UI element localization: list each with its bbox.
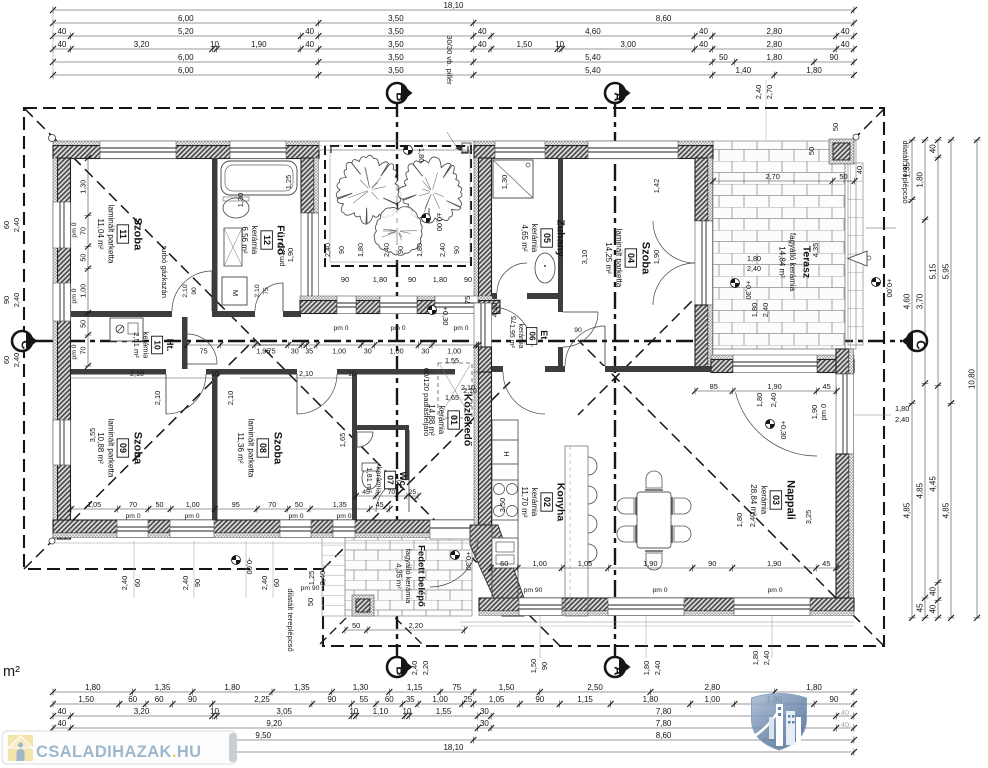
svg-text:2,10: 2,10 xyxy=(182,284,189,297)
section marker B bottom xyxy=(387,657,413,677)
dim row konyha-nappali south xyxy=(488,559,839,572)
svg-text:Fedett belépő: Fedett belépő xyxy=(415,545,426,607)
dim text 40 gray right xyxy=(841,708,849,729)
svg-text:2,40: 2,40 xyxy=(12,293,21,307)
dim text 1,65 xyxy=(338,433,347,447)
svg-text:1,55: 1,55 xyxy=(436,707,452,716)
svg-text:50: 50 xyxy=(807,147,816,155)
svg-text:5,15: 5,15 xyxy=(929,263,938,279)
svg-text:75: 75 xyxy=(463,296,472,304)
kitchen west wall xyxy=(474,372,492,525)
svg-text:60: 60 xyxy=(155,695,164,704)
svg-text:60: 60 xyxy=(2,221,11,229)
svg-text:2,10: 2,10 xyxy=(299,369,313,378)
exterior wall south kitchen-nappali xyxy=(479,598,854,616)
svg-text:2,40: 2,40 xyxy=(410,661,419,675)
elevation marker +0,00 terasz edge xyxy=(872,278,895,298)
svg-text:10,88 m²: 10,88 m² xyxy=(96,432,105,464)
svg-text:Szoba: Szoba xyxy=(131,218,143,251)
svg-text:45: 45 xyxy=(376,500,384,509)
svg-text:pm 0: pm 0 xyxy=(652,587,667,594)
svg-text:1,50: 1,50 xyxy=(529,659,538,673)
svg-text:1,15: 1,15 xyxy=(407,683,423,692)
dim row wc xyxy=(353,489,421,500)
elevation marker +0,30 entry xyxy=(451,551,474,571)
svg-text:3,50: 3,50 xyxy=(388,40,404,49)
dimension row bottom detail xyxy=(50,695,857,708)
patio roof edge strip xyxy=(319,141,474,150)
svg-text:1,05: 1,05 xyxy=(578,559,592,568)
svg-text:90: 90 xyxy=(396,246,405,254)
window top szoba04 xyxy=(588,141,678,159)
dim text 2,40 xyxy=(653,661,662,675)
svg-text:pm 0: pm 0 xyxy=(333,325,348,332)
window south szoba08 a xyxy=(280,520,311,538)
dim row corridor right xyxy=(252,342,482,356)
dim entry bottom xyxy=(342,621,468,634)
svg-text:40: 40 xyxy=(929,586,938,595)
dim text 50 xyxy=(306,598,315,606)
svg-text:2,10: 2,10 xyxy=(130,369,144,378)
dim text 2,40 xyxy=(410,661,419,675)
tree large right xyxy=(398,157,462,223)
svg-text:1,30: 1,30 xyxy=(236,193,245,207)
svg-text:pm120: pm120 xyxy=(277,244,286,267)
svg-text:90: 90 xyxy=(337,246,346,254)
svg-text:1,35: 1,35 xyxy=(155,683,171,692)
text pm0 row patio xyxy=(333,325,468,332)
svg-text:2,40: 2,40 xyxy=(323,243,332,257)
svg-text:60: 60 xyxy=(272,579,281,587)
door arc zuhany xyxy=(497,263,527,293)
dimension row top five xyxy=(50,53,857,66)
svg-text:11,04 m²: 11,04 m² xyxy=(96,219,105,250)
elevation marker +0,30 kozlekedo xyxy=(428,306,451,326)
svg-text:M: M xyxy=(231,290,240,296)
svg-text:1,50: 1,50 xyxy=(78,695,94,704)
svg-text:30: 30 xyxy=(480,719,489,728)
roof valley kitchen xyxy=(323,382,510,569)
wall corridor-Et lower xyxy=(474,347,492,372)
svg-text:Szoba: Szoba xyxy=(131,432,143,465)
dim text 2,40 xyxy=(769,393,778,407)
wall szoba04 east lower xyxy=(695,305,713,367)
svg-text:1,35: 1,35 xyxy=(333,500,347,509)
svg-text:B: B xyxy=(394,666,408,675)
room Furdo 12 label xyxy=(240,225,287,255)
svg-text:Szoba: Szoba xyxy=(639,242,651,275)
svg-text:1,80: 1,80 xyxy=(373,275,387,284)
section marker A top xyxy=(605,83,631,103)
svg-text:5,20: 5,20 xyxy=(178,27,194,36)
exterior wall west xyxy=(53,158,71,539)
svg-text:laminált parketta: laminált parketta xyxy=(614,229,623,288)
svg-text:2,40: 2,40 xyxy=(895,415,909,424)
svg-text:3,50: 3,50 xyxy=(388,66,404,75)
svg-text:95: 95 xyxy=(232,500,240,509)
svg-text:1,42: 1,42 xyxy=(652,179,661,193)
shower zuhany xyxy=(493,160,533,198)
svg-text:+1,80: +1,80 xyxy=(417,144,426,163)
svg-text:2,25: 2,25 xyxy=(254,695,270,704)
svg-text:1,80: 1,80 xyxy=(755,393,764,407)
svg-text:1,30: 1,30 xyxy=(79,180,88,194)
svg-text:4,65 m²: 4,65 m² xyxy=(520,224,529,251)
svg-text:Et.: Et. xyxy=(539,330,549,342)
window south szoba09 b xyxy=(170,520,214,538)
section marker C right xyxy=(902,331,928,351)
terrace door opening xyxy=(733,355,817,373)
svg-text:H: H xyxy=(502,451,511,456)
svg-text:90: 90 xyxy=(452,246,461,254)
svg-text:1,80: 1,80 xyxy=(642,661,651,675)
svg-text:A: A xyxy=(612,666,626,675)
svg-text:2,40: 2,40 xyxy=(747,264,761,273)
svg-text:70: 70 xyxy=(79,227,88,235)
svg-text:60: 60 xyxy=(133,579,142,587)
svg-text:60/120 padlásfeljáró: 60/120 padlásfeljáró xyxy=(422,368,431,436)
svg-text:2,20: 2,20 xyxy=(421,661,430,675)
svg-text:14,25 m²: 14,25 m² xyxy=(604,242,613,274)
wall corridor south xyxy=(71,369,492,375)
section marker A bottom xyxy=(605,657,631,677)
svg-text:1,40: 1,40 xyxy=(736,66,752,75)
svg-text:C: C xyxy=(19,340,33,349)
dim text 2,40 xyxy=(761,303,770,317)
svg-text:45: 45 xyxy=(822,559,830,568)
svg-text:1,80: 1,80 xyxy=(747,254,761,263)
dim text 1,42 xyxy=(652,179,661,193)
svg-text:1,30: 1,30 xyxy=(500,175,509,189)
entry diagonal wall xyxy=(470,525,524,616)
svg-text:1,80: 1,80 xyxy=(415,243,424,257)
svg-text:75: 75 xyxy=(200,347,208,356)
svg-text:25: 25 xyxy=(463,695,472,704)
svg-text:1,50: 1,50 xyxy=(517,40,533,49)
svg-text:1,00: 1,00 xyxy=(705,695,721,704)
svg-text:pm 90: pm 90 xyxy=(524,587,543,594)
dim text 3,55 xyxy=(88,428,97,442)
svg-text:5,40: 5,40 xyxy=(585,53,601,62)
dim text 1,30 xyxy=(236,193,245,207)
dim text 2,40 xyxy=(260,576,269,590)
svg-text:30: 30 xyxy=(364,347,372,356)
svg-text:4,60: 4,60 xyxy=(903,293,912,309)
nappali east window labels xyxy=(854,404,909,424)
svg-text:5,40: 5,40 xyxy=(585,66,601,75)
svg-text:pm 0: pm 0 xyxy=(125,513,140,520)
svg-text:14,84 m²: 14,84 m² xyxy=(778,246,787,278)
svg-text:1,00: 1,00 xyxy=(432,695,448,704)
door arc szoba08 xyxy=(297,374,337,414)
door leaf arcs szoba04-terasz xyxy=(653,221,695,305)
text pm row south xyxy=(301,585,783,594)
svg-text:m²: m² xyxy=(3,664,20,680)
chair top xyxy=(645,471,663,490)
dim row corridor left xyxy=(184,342,310,356)
partition zuhany-szoba04 xyxy=(558,158,563,312)
window leader lines south-right xyxy=(540,616,772,658)
door gap kitchen xyxy=(503,366,545,372)
dim column west inner xyxy=(71,155,92,369)
text dilatalt tereplepcso bottom xyxy=(286,588,295,651)
wall wc north xyxy=(352,425,409,430)
svg-text:40: 40 xyxy=(57,719,66,728)
dimension row bottom 9,20 7,80 xyxy=(50,719,857,732)
svg-text:pm 0: pm 0 xyxy=(390,325,405,332)
svg-text:2,40: 2,40 xyxy=(12,218,21,232)
svg-text:70: 70 xyxy=(388,489,396,496)
svg-text:kerámia: kerámia xyxy=(375,467,384,495)
window south szoba09 a xyxy=(117,520,148,538)
window east nappali xyxy=(836,374,854,454)
svg-text:5,95: 5,95 xyxy=(942,263,951,279)
svg-text:7,80: 7,80 xyxy=(656,707,672,716)
svg-text:06: 06 xyxy=(527,332,536,341)
patio corner bracket right xyxy=(461,146,468,153)
svg-text:Ht.: Ht. xyxy=(164,339,175,352)
svg-text:laminált parketta: laminált parketta xyxy=(246,419,255,478)
svg-text:4,35 m²: 4,35 m² xyxy=(394,563,403,589)
svg-text:2,80: 2,80 xyxy=(767,27,783,36)
chair right2 xyxy=(672,525,691,543)
room Szoba 11 label xyxy=(96,205,143,264)
svg-text:90: 90 xyxy=(708,559,716,568)
svg-text:2,20: 2,20 xyxy=(409,621,423,630)
nappali east wall xyxy=(836,454,854,599)
svg-text:25: 25 xyxy=(409,489,417,496)
roof outline dashed xyxy=(24,108,884,646)
dim text 3,50 xyxy=(498,498,507,512)
svg-text:90: 90 xyxy=(2,296,11,304)
dim 2,10 doors xyxy=(182,284,477,395)
svg-text:50: 50 xyxy=(719,53,728,62)
svg-text:kerámia: kerámia xyxy=(250,226,259,255)
svg-text:40: 40 xyxy=(841,40,850,49)
window west 90 xyxy=(53,283,71,321)
svg-text:+0,30: +0,30 xyxy=(779,421,788,440)
tree small lower xyxy=(374,207,422,256)
toilet wc xyxy=(362,463,378,489)
svg-text:Wc.: Wc. xyxy=(397,472,408,489)
svg-text:laminált parketta: laminált parketta xyxy=(106,419,115,478)
window south nappali a xyxy=(608,598,684,616)
svg-text:50: 50 xyxy=(306,598,315,606)
svg-text:30/30 vb. pillér: 30/30 vb. pillér xyxy=(445,35,454,85)
svg-text:6,00: 6,00 xyxy=(178,53,194,62)
svg-text:C: C xyxy=(914,340,928,349)
dim 90 et door xyxy=(574,327,582,334)
dimension row top six xyxy=(50,66,857,79)
svg-text:1,15: 1,15 xyxy=(577,695,593,704)
svg-text:1,90: 1,90 xyxy=(810,405,819,419)
door arc kitchen xyxy=(503,372,545,414)
svg-text:6,00: 6,00 xyxy=(178,14,194,23)
dim terasz 2,70 50 xyxy=(710,172,858,185)
chair bottom xyxy=(645,551,663,570)
door arc szoba04 xyxy=(565,326,605,366)
svg-text:2,40: 2,40 xyxy=(748,513,757,527)
patio inner edge xyxy=(330,150,470,262)
nappali north wall xyxy=(711,355,854,373)
chair left2 xyxy=(617,525,636,543)
svg-text:4,45: 4,45 xyxy=(929,476,938,492)
svg-text:kerámia: kerámia xyxy=(530,224,539,253)
roof hip diagonal top-left xyxy=(25,109,560,646)
svg-text:90: 90 xyxy=(341,275,349,284)
svg-text:11: 11 xyxy=(118,229,128,239)
svg-text:Szoba: Szoba xyxy=(271,432,283,465)
partition Ht east xyxy=(182,317,188,374)
text 60/120 padlasfejaro xyxy=(422,368,431,436)
elevation marker +0,30 terasz xyxy=(731,279,754,300)
svg-text:50: 50 xyxy=(79,320,88,328)
dim text 1,90 xyxy=(652,250,661,264)
window leader lines south-left xyxy=(134,541,273,598)
svg-text:1,90: 1,90 xyxy=(767,382,781,391)
svg-text:09: 09 xyxy=(118,443,128,453)
room Kozlekedo 01 label xyxy=(427,394,474,447)
svg-text:4,60: 4,60 xyxy=(585,27,601,36)
svg-text:kerámia: kerámia xyxy=(759,486,768,515)
text pm0 row bottom xyxy=(125,513,351,520)
svg-text:90: 90 xyxy=(193,579,202,587)
svg-text:40: 40 xyxy=(841,27,850,36)
dim text 50 xyxy=(807,147,816,155)
svg-text:2,40: 2,40 xyxy=(260,576,269,590)
svg-text:40: 40 xyxy=(305,40,314,49)
dim text 75 xyxy=(463,296,472,304)
svg-text:11,70 m²: 11,70 m² xyxy=(520,487,529,518)
svg-text:04: 04 xyxy=(626,253,636,263)
slab edge under south wall left xyxy=(53,542,478,544)
svg-text:9,20: 9,20 xyxy=(266,719,282,728)
room Zuhany 05 label xyxy=(520,219,567,256)
door gap kozlekedo-south xyxy=(455,369,485,375)
door arc room11 xyxy=(172,271,212,311)
chair right1 xyxy=(672,497,691,515)
svg-text:90: 90 xyxy=(408,275,416,284)
dim text 50 xyxy=(831,123,840,131)
svg-text:40: 40 xyxy=(305,27,314,36)
partition wc-kozlekedo xyxy=(405,430,410,480)
svg-text:3,50: 3,50 xyxy=(498,498,507,512)
logo bar csaladihazak.hu xyxy=(2,731,237,764)
svg-text:1,00: 1,00 xyxy=(332,347,346,356)
roof hip entry right xyxy=(345,569,423,645)
svg-text:pm 0: pm 0 xyxy=(71,288,78,303)
svg-text:±0,00: ±0,00 xyxy=(435,213,444,231)
Et east partition xyxy=(558,347,563,372)
svg-text:kerámia: kerámia xyxy=(142,332,151,360)
svg-text:1,00: 1,00 xyxy=(390,347,404,356)
dim text 90 xyxy=(193,579,202,587)
tree large left xyxy=(336,155,401,224)
door arc Et xyxy=(492,307,532,347)
svg-text:8,60: 8,60 xyxy=(656,731,672,740)
bath counter xyxy=(224,228,242,266)
svg-text:1,55: 1,55 xyxy=(445,356,459,365)
svg-text:1,90: 1,90 xyxy=(767,559,781,568)
terrace edge slab xyxy=(845,141,856,349)
room Szoba 04 label xyxy=(604,229,651,288)
dim text 1,30 xyxy=(500,175,509,189)
svg-text:1,80: 1,80 xyxy=(433,275,447,284)
section line C-C horizontal xyxy=(36,340,902,342)
svg-text:18,10: 18,10 xyxy=(443,743,464,752)
dimension row bottom 9,50 8,60 xyxy=(50,731,857,744)
svg-text:75: 75 xyxy=(263,287,270,295)
window top room11 xyxy=(100,141,176,159)
svg-text:4,85: 4,85 xyxy=(903,502,912,518)
dim text 2,40 xyxy=(748,513,757,527)
dimension column right C xyxy=(929,137,942,621)
svg-text:pm 0: pm 0 xyxy=(288,513,303,520)
svg-text:90: 90 xyxy=(830,53,839,62)
window south nappali b xyxy=(734,598,810,616)
dimension column right A xyxy=(903,137,916,621)
svg-text:3,50: 3,50 xyxy=(388,14,404,23)
dimension row top total 18,10 xyxy=(50,1,857,14)
roof hip diagonal bottom-left xyxy=(24,341,253,569)
svg-text:18,10: 18,10 xyxy=(443,1,464,10)
text 30/30 vb piller xyxy=(445,35,456,146)
text turbo gazkazan xyxy=(160,246,169,298)
nappali east wall upper xyxy=(836,349,854,374)
svg-text:28,84 m²: 28,84 m² xyxy=(749,484,758,516)
svg-text:2,40: 2,40 xyxy=(318,571,327,585)
svg-text:90: 90 xyxy=(327,695,336,704)
svg-text:turbó gázkazán: turbó gázkazán xyxy=(160,246,169,298)
svg-text:85: 85 xyxy=(710,382,718,391)
dim text 2,40 xyxy=(181,576,190,590)
kitchen counter xyxy=(492,420,518,598)
dim text 2,10 xyxy=(226,391,235,405)
svg-text:Konyha: Konyha xyxy=(555,483,567,522)
svg-text:35: 35 xyxy=(305,347,313,356)
dim text 1,25 xyxy=(307,571,316,585)
svg-text:1,00: 1,00 xyxy=(79,284,88,298)
svg-text:pm 0: pm 0 xyxy=(336,513,351,520)
room Fedett belepo label xyxy=(394,545,426,607)
dim text pm 0 xyxy=(819,404,828,420)
svg-text:kerámia: kerámia xyxy=(517,324,524,349)
patio corner bracket left xyxy=(331,146,338,153)
svg-text:2,40: 2,40 xyxy=(754,85,763,99)
svg-text:2,80: 2,80 xyxy=(705,683,721,692)
svg-text:2,10: 2,10 xyxy=(226,391,235,405)
dim text 90 xyxy=(540,662,549,670)
dim text pm120 xyxy=(277,244,286,267)
dimension column right total 10,80 xyxy=(968,137,981,621)
svg-text:1,80: 1,80 xyxy=(85,683,101,692)
svg-text:12: 12 xyxy=(262,235,272,245)
room Terasz label xyxy=(778,233,813,292)
svg-text:pm 0: pm 0 xyxy=(767,587,782,594)
svg-text:40: 40 xyxy=(841,720,849,729)
svg-text:3,10: 3,10 xyxy=(580,250,589,264)
window south konyha pm90 xyxy=(519,598,562,616)
svg-text:3,00: 3,00 xyxy=(620,40,636,49)
svg-text:45: 45 xyxy=(362,489,370,496)
svg-text:2,40: 2,40 xyxy=(181,576,190,590)
svg-text:50: 50 xyxy=(79,254,88,262)
svg-text:10: 10 xyxy=(211,369,219,378)
svg-text:45: 45 xyxy=(916,603,925,612)
svg-text:6,56 m²: 6,56 m² xyxy=(240,226,249,253)
svg-text:90: 90 xyxy=(191,287,198,295)
partition room11-bathroom xyxy=(212,158,218,311)
